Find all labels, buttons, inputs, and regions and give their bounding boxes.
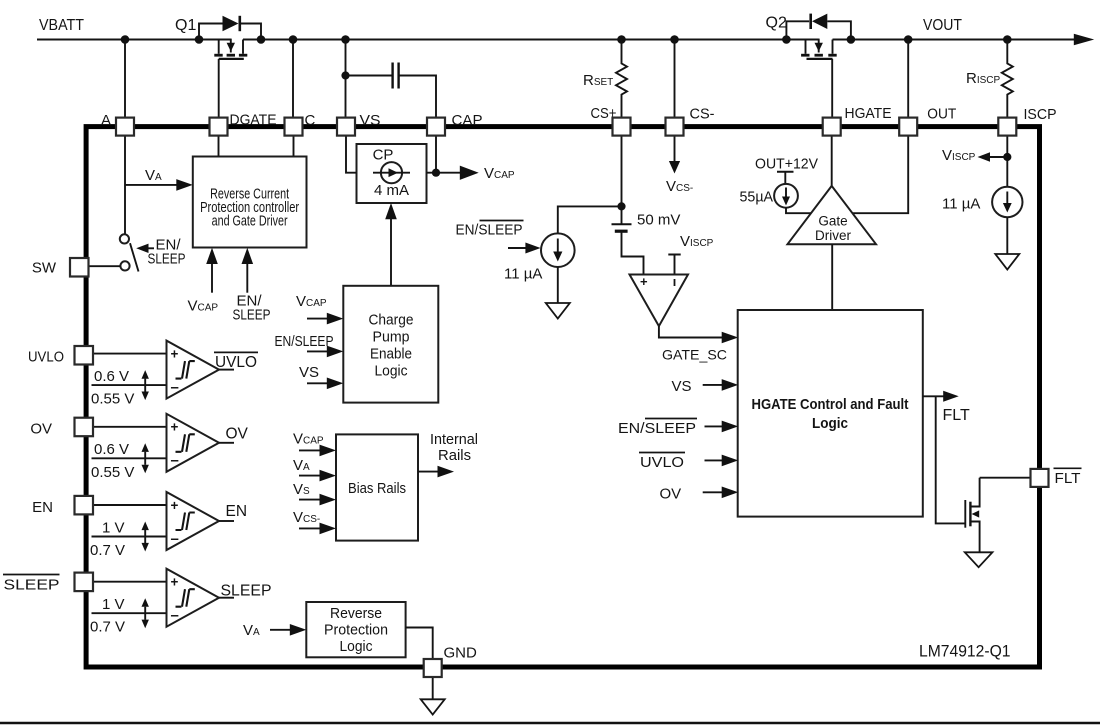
hysteresis arrows EN <box>142 522 149 552</box>
comparator U5 current sense (points down) <box>630 275 689 327</box>
wire node to left current source <box>558 206 622 233</box>
svg-text:Pump: Pump <box>373 329 410 346</box>
wire VS arrow into Bias Rails <box>299 499 324 501</box>
hysteresis arrows UVLO <box>142 370 149 400</box>
svg-text:OV: OV <box>660 486 682 503</box>
block CP charge pump <box>357 144 427 203</box>
svg-text:EN/SLEEP: EN/SLEEP <box>456 222 523 239</box>
wire VA arrow into Bias Rails <box>299 475 324 477</box>
wire VA arrow into Reverse Protection Logic <box>270 629 295 631</box>
wire OUT pin down and left to gate driver <box>852 134 909 213</box>
svg-text:A: A <box>101 112 111 129</box>
pin ISCP <box>998 118 1016 136</box>
svg-text:FLT: FLT <box>943 407 970 424</box>
block Reverse Current Protection controller and Gate Driver <box>193 157 307 248</box>
svg-text:Bias Rails: Bias Rails <box>348 480 406 497</box>
terminal VISCP bar at comparator <box>668 255 680 275</box>
svg-text:VBATT: VBATT <box>39 17 84 34</box>
arrowhead GATE_SC into box <box>722 332 739 344</box>
wire left current source to ground <box>557 267 559 303</box>
svg-text:GATE_SC: GATE_SC <box>662 347 727 363</box>
svg-text:0.55 V: 0.55 V <box>91 391 134 408</box>
wire GND pin to ground symbol <box>432 677 434 699</box>
wire A pin down from rail <box>124 40 126 121</box>
wire EN/SLEEP input arrow <box>307 350 332 352</box>
wire HGATE pin to gate driver apex <box>831 134 833 186</box>
svg-text:Protection: Protection <box>324 622 388 639</box>
wire VCAP arrow into Bias Rails <box>299 449 324 451</box>
arrowhead VCAP output <box>460 166 479 180</box>
resistor RSET <box>616 40 627 121</box>
wire DGATE pin to Reverse Current box <box>218 134 220 157</box>
svg-text:+: + <box>171 347 179 362</box>
diode D1 cathode bar <box>239 16 242 31</box>
svg-text:0.7 V: 0.7 V <box>90 542 125 559</box>
wire VS pin to CP box <box>346 134 357 173</box>
pin OUT <box>899 118 917 136</box>
svg-text:SLEEP: SLEEP <box>148 251 186 268</box>
svg-text:Logic: Logic <box>340 638 373 655</box>
wire 55uA to gate driver left edge <box>786 208 811 214</box>
overline SLEEP <box>480 220 524 222</box>
wire Q1 gate to DGATE pin <box>218 59 220 120</box>
wire VS branch from rail to VS pin <box>345 40 347 121</box>
svg-text:11 µA: 11 µA <box>942 196 980 213</box>
svg-text:LM74912-Q1: LM74912-Q1 <box>919 643 1011 661</box>
pin GND <box>424 659 442 677</box>
svg-text:0.6 V: 0.6 V <box>94 441 129 458</box>
capacitor C1 wire right into CAP pin <box>399 76 436 121</box>
wire EN/SLEEP arrow tail <box>148 247 154 249</box>
svg-text:HGATE Control and Fault: HGATE Control and Fault <box>752 396 909 413</box>
svg-text:EN: EN <box>32 499 53 516</box>
pin A <box>116 118 134 136</box>
wire EN/SLEEP arrow up into Reverse Current box <box>246 260 248 293</box>
node RSET branch <box>617 35 626 44</box>
arrowhead VOUT rail output <box>1074 34 1094 45</box>
svg-text:VS: VS <box>299 364 319 381</box>
svg-text:CP: CP <box>373 147 394 164</box>
node A branch <box>121 35 130 44</box>
wire Internal Rails output arrow <box>418 471 442 473</box>
wire CS- pin to VCS- arrow <box>674 134 676 162</box>
svg-text:SLEEP: SLEEP <box>221 582 272 599</box>
wire SW pin to bottom contact <box>88 265 120 267</box>
svg-text:Logic: Logic <box>812 415 848 432</box>
svg-text:+: + <box>640 274 648 289</box>
svg-text:EN/SLEEP: EN/SLEEP <box>275 333 334 350</box>
wire OV input arrow to HGATE box <box>703 491 727 493</box>
svg-text:OV: OV <box>226 426 249 443</box>
svg-text:+: + <box>171 575 179 590</box>
op-amp gate driver triangle <box>788 186 877 244</box>
svg-text:OUT+12V: OUT+12V <box>755 156 818 173</box>
wire FLT output from HGATE box <box>923 395 948 397</box>
wire charge pump enable logic up to CP block <box>390 214 392 286</box>
svg-text:55µA: 55µA <box>740 189 774 206</box>
svg-text:+: + <box>171 420 179 435</box>
svg-text:Charge: Charge <box>369 312 414 329</box>
svg-text:0.7 V: 0.7 V <box>90 619 125 636</box>
arrowhead VISCP (points left) <box>978 152 991 161</box>
wire VCS- arrow into Bias Rails <box>299 527 324 529</box>
svg-text:HGATE: HGATE <box>845 105 892 122</box>
block Reverse Protection Logic <box>306 602 405 657</box>
svg-text:SLEEP: SLEEP <box>4 577 60 594</box>
hysteresis arrows OV <box>142 443 149 473</box>
pin VS <box>337 118 355 136</box>
svg-text:Internal: Internal <box>430 431 478 448</box>
wire C pin branch: rail to pin, pin to box <box>292 40 295 157</box>
transistor Q3 FLT open drain <box>965 478 979 553</box>
wire current source to ground <box>1006 217 1008 254</box>
node CS+ / 11uA junction <box>617 202 625 210</box>
svg-text:UVLO: UVLO <box>640 454 684 471</box>
svg-text:UVLO: UVLO <box>28 349 64 366</box>
node VISCP tap <box>1003 153 1011 161</box>
svg-text:50 mV: 50 mV <box>637 212 680 229</box>
svg-text:UVLO: UVLO <box>215 354 257 371</box>
svg-text:ISCP: ISCP <box>1024 106 1057 123</box>
svg-text:C: C <box>305 112 316 129</box>
wire VA tap to Reverse Current box <box>125 184 181 186</box>
pin UVLO <box>75 346 94 365</box>
comparator U2 OV <box>92 414 235 472</box>
arrowhead EN/SLEEP pointing at switch blade <box>136 244 148 253</box>
arrowhead VCS- <box>669 161 680 174</box>
diode D2 cathode bar <box>809 14 812 29</box>
svg-text:11 µA: 11 µA <box>504 266 542 283</box>
node RISCP branch <box>1003 35 1012 44</box>
ground symbol right <box>995 254 1019 270</box>
battery 50 mV plus plate <box>612 223 632 225</box>
switch blade <box>130 243 139 271</box>
svg-text:FLT: FLT <box>1055 470 1081 487</box>
wire OUT pin branch from rail <box>907 40 909 121</box>
wire rail middle segment <box>243 39 819 41</box>
pin CS+ <box>613 118 631 136</box>
svg-text:VOUT: VOUT <box>923 17 962 34</box>
arrowhead FLT output <box>943 391 959 402</box>
wire A pin down to switch <box>124 134 126 234</box>
pin HGATE <box>823 118 841 136</box>
svg-text:Q2: Q2 <box>766 15 787 32</box>
current source I1 11uA (left) <box>541 233 575 267</box>
svg-text:CS+: CS+ <box>591 105 617 122</box>
arrowhead VA <box>176 179 193 191</box>
svg-text:SLEEP: SLEEP <box>233 307 271 324</box>
node VS branch <box>341 35 350 44</box>
arrowhead VCAP up <box>206 248 218 264</box>
wire Reverse Protection Logic to GND pin <box>406 628 433 661</box>
wire VS input arrow <box>307 382 332 384</box>
node VCAP <box>432 169 440 177</box>
wire Q2 gate to HGATE pin <box>831 59 833 120</box>
wire EN/SLEEP arrow into current source <box>508 247 529 249</box>
diode D1 of Q1 wire loop <box>199 24 261 40</box>
wire FLT branch down to Q3 gate <box>936 396 966 523</box>
terminal bar OUT+12V <box>777 171 794 173</box>
current source I2 11uA (right) <box>992 187 1022 217</box>
wire VS input arrow to HGATE box <box>703 384 727 386</box>
wire CAP pin down to VCAP node <box>435 134 437 173</box>
block Charge Pump Enable Logic <box>343 286 438 403</box>
svg-text:+: + <box>171 498 179 513</box>
svg-text:GND: GND <box>444 645 478 662</box>
wire gate driver to HGATE control box <box>831 244 833 310</box>
pin C <box>285 118 303 136</box>
wire UVLO input arrow to HGATE box <box>705 459 727 461</box>
ground symbol Q3 source <box>965 552 993 567</box>
wire VBATT rail left segment <box>37 39 231 41</box>
svg-text:SW: SW <box>32 260 57 277</box>
ground symbol left current source <box>546 303 570 319</box>
wire ISCP pin down to current source <box>1006 134 1008 187</box>
capacitor C1 wire left <box>346 75 393 77</box>
current source I3 55uA <box>774 184 798 208</box>
switch SW contact bottom circle <box>120 261 129 270</box>
pin CS- <box>666 118 684 136</box>
svg-text:Driver: Driver <box>815 228 852 243</box>
node Q2 left <box>782 35 791 44</box>
comparator U1 UVLO <box>92 341 235 399</box>
block HGATE Control and Fault Logic <box>738 310 923 517</box>
wire OUT+12V to 55uA source <box>784 172 786 184</box>
pin SLEEP <box>75 573 94 592</box>
node Q1 cathode <box>257 35 266 44</box>
svg-text:0.55 V: 0.55 V <box>91 464 134 481</box>
svg-text:–: – <box>171 607 179 624</box>
pin DGATE <box>210 118 228 136</box>
arrowhead into CP block <box>385 203 397 219</box>
transistor Q1 MOSFET <box>214 39 247 59</box>
arrowhead EN/SLEEP up <box>242 248 254 264</box>
wire battery to comparator plus input <box>622 231 644 274</box>
battery 50 mV minus plate <box>615 230 628 233</box>
svg-text:–: – <box>171 530 179 547</box>
ground symbol GND <box>421 699 445 714</box>
comparator U4 SLEEP <box>92 569 235 627</box>
pin FLT <box>1031 469 1049 487</box>
svg-text:OV: OV <box>30 421 52 438</box>
node Q2 right <box>847 35 856 44</box>
transistor Q2 MOSFET <box>801 39 837 59</box>
wire U5 output to HGATE control box <box>659 326 727 337</box>
node OUT branch <box>904 35 913 44</box>
switch SW contact top circle <box>120 234 129 243</box>
wire CP box to VCAP node and arrow <box>427 172 467 174</box>
wire VISCP tap <box>989 156 1007 158</box>
svg-text:CAP: CAP <box>452 112 483 129</box>
svg-text:Gate: Gate <box>818 214 847 229</box>
svg-text:Logic: Logic <box>375 363 408 380</box>
svg-text:EN: EN <box>226 503 248 520</box>
wire EN/SLEEP input arrow to HGATE box <box>705 425 727 427</box>
pin EN <box>75 496 94 515</box>
svg-text:OUT: OUT <box>927 106 956 123</box>
svg-text:Q1: Q1 <box>175 17 196 34</box>
node Q1 anode <box>195 35 204 44</box>
diode D2 body <box>812 14 827 29</box>
svg-text:1 V: 1 V <box>102 596 125 613</box>
resistor RISCP <box>1002 40 1013 121</box>
svg-text:–: – <box>171 379 179 396</box>
bottom page rule <box>0 722 1100 724</box>
node VS/cap junction <box>341 71 349 79</box>
svg-text:and Gate Driver: and Gate Driver <box>212 213 288 230</box>
svg-text:EN/SLEEP: EN/SLEEP <box>618 420 696 437</box>
pin OV <box>75 418 94 437</box>
svg-text:VS: VS <box>360 112 381 129</box>
label minus bar inside U5 <box>674 279 676 286</box>
capacitor C1 plates <box>393 63 399 89</box>
pin SW <box>70 258 89 277</box>
diode D2 of Q2 wire loop <box>786 21 851 39</box>
svg-text:Rails: Rails <box>438 447 471 464</box>
wire CS- pin from rail <box>674 40 676 121</box>
current source CP symbol <box>373 162 410 183</box>
node CS- branch <box>670 35 679 44</box>
wire rail right segment to VOUT <box>833 39 1077 41</box>
arrowhead EN/SLEEP <box>525 243 540 254</box>
svg-text:VS: VS <box>672 378 692 395</box>
pin CAP <box>427 118 445 136</box>
hysteresis arrows SLEEP <box>142 598 149 628</box>
svg-text:4 mA: 4 mA <box>374 182 409 199</box>
wire VCAP input arrow <box>307 318 332 320</box>
block Bias Rails <box>336 434 418 540</box>
svg-text:CS-: CS- <box>690 106 715 123</box>
wire CS+ pin from rail is RSET above; CS+ pin down to node <box>621 134 623 224</box>
svg-text:1 V: 1 V <box>102 519 125 536</box>
svg-text:Enable: Enable <box>370 346 412 363</box>
node C branch <box>289 35 298 44</box>
svg-text:–: – <box>171 452 179 469</box>
diode D1 body <box>223 16 239 31</box>
svg-text:0.6 V: 0.6 V <box>94 368 129 385</box>
IC body outline LM74912-Q1 <box>86 127 1039 667</box>
wire Q3 drain to FLT pin <box>980 477 1031 479</box>
svg-text:DGATE: DGATE <box>230 112 277 129</box>
wire VCAP arrow up into Reverse Current box <box>211 260 213 293</box>
svg-text:Reverse: Reverse <box>330 605 382 622</box>
comparator U3 EN <box>92 492 235 550</box>
